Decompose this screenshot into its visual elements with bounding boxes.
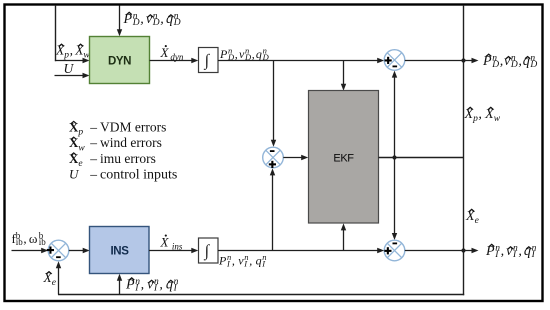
integrator block 1 — [199, 48, 219, 73]
wire PDvDqD feedback into DYN top (arrow) — [119, 6, 121, 31]
wire branch down to EKF top (arrow) — [343, 61, 345, 86]
wire S1 to INS (arrow) — [69, 250, 84, 252]
wire f,ω input (arrow) — [12, 250, 43, 252]
wire branch down to sum S4 (arrow) — [394, 158, 396, 235]
svg-text:U: U — [64, 61, 75, 76]
node dot bus bottom — [461, 248, 465, 252]
svg-text:wind errors: wind errors — [100, 135, 162, 150]
svg-text:–: – — [89, 135, 97, 150]
svg-text:fibb,ωibb: fibb,ωibb — [12, 231, 47, 248]
wire bottom rail to sum S4 (arrow) — [218, 250, 379, 252]
svg-text:–: – — [89, 151, 97, 166]
wire bottom feedback — [58, 294, 464, 296]
svg-text:INS: INS — [111, 246, 130, 258]
wire branch up to sum S3 (arrow) — [394, 76, 396, 157]
svg-text:–: – — [89, 120, 97, 135]
wire S2 to EKF (arrow) — [283, 157, 302, 159]
wire Xp,Xw feedback (vertical drop) — [55, 5, 57, 61]
node dot EKF-output branch — [392, 155, 396, 159]
wire EKF output to bus — [379, 157, 464, 159]
svg-text:PDn,vDn,qDn: PDn,vDn,qDn — [219, 45, 270, 62]
svg-text:VDM errors: VDM errors — [100, 120, 166, 135]
block INS — [90, 227, 150, 274]
node dot bus top — [461, 58, 465, 62]
wire Xp,Xw into DYN (arrow) — [55, 60, 84, 62]
integrator block 2 — [199, 238, 219, 263]
wire branch up to EKF bottom (arrow) — [343, 229, 345, 251]
wire U input (arrow) — [55, 75, 85, 77]
svg-text:DYN: DYN — [108, 56, 131, 68]
sum junction S3 — [384, 50, 405, 71]
wire INS to integrator2 (arrow) — [149, 250, 193, 252]
sum junction S2 — [263, 147, 284, 168]
wire X̂e up into S1 (arrow) — [58, 267, 60, 295]
wire branch down to sum S2 (arrow) — [273, 61, 275, 142]
sum junction S4 — [384, 240, 405, 261]
svg-text:U: U — [69, 166, 80, 181]
block EKF — [309, 91, 379, 224]
wire DYN to integrator (arrow) — [150, 60, 193, 62]
sum junction S1 — [48, 240, 69, 261]
wire S4 output (arrow) — [405, 250, 473, 252]
svg-text:imu errors: imu errors — [100, 151, 156, 166]
svg-text:–: – — [89, 166, 97, 181]
svg-text:PIn,vIn,qIn: PIn,vIn,qIn — [218, 252, 267, 269]
svg-text:EKF: EKF — [333, 153, 354, 165]
wire top rail to sum S3 (arrow) — [218, 60, 379, 62]
block DYN — [90, 37, 150, 84]
wire feedback bus (vertical) — [463, 5, 465, 295]
svg-text:control inputs: control inputs — [100, 167, 177, 182]
wire branch up to sum S2 bottom (arrow) — [272, 174, 274, 251]
wire P̂I feedback into INS bottom (arrow) — [119, 279, 121, 294]
wire S3 output (arrow) — [405, 60, 473, 62]
